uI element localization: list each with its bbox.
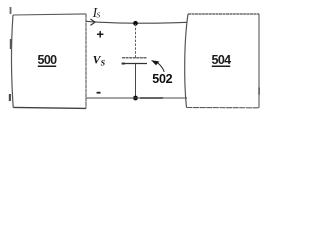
- scan streak artifacts (decorative): [9, 7, 12, 101]
- leader arrow to capacitor 502: [151, 60, 164, 72]
- block 504 (load): [185, 14, 260, 108]
- svg-text:500: 500: [37, 53, 57, 67]
- wire bottom: [86, 97, 187, 99]
- label 500: [37, 53, 57, 67]
- wire top: [86, 21, 187, 23]
- label 504: [211, 53, 231, 67]
- svg-text:504: 504: [211, 53, 231, 67]
- node: top junction: [133, 21, 138, 26]
- capacitor 502: [122, 24, 147, 97]
- plus polarity: [97, 31, 103, 37]
- block 500 (source): [12, 14, 86, 109]
- node: bottom junction: [133, 96, 138, 101]
- current arrow Is: [90, 19, 95, 25]
- minus polarity: [97, 92, 101, 94]
- svg-text:502: 502: [152, 72, 172, 86]
